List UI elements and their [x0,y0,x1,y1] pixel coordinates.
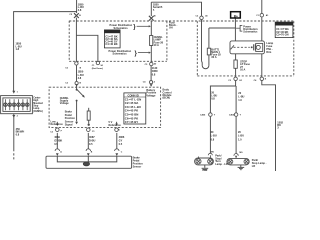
svg-text:CONN ID: CONN ID [106,30,117,34]
svg-text:4087: 4087 [89,135,95,139]
svg-text:L-BU: L-BU [238,94,244,98]
svg-text:4069: 4069 [54,135,60,139]
svg-text:GY/BK: GY/BK [54,138,62,142]
svg-text:Dim: Dim [266,50,272,54]
svg-text:1.8: 1.8 [16,47,20,51]
svg-text:L-BU: L-BU [238,134,244,138]
svg-text:UH: UH [169,26,173,30]
svg-text:0.8: 0.8 [211,137,215,141]
svg-text:0.5: 0.5 [89,142,93,146]
svg-text:C405: C405 [229,114,235,117]
svg-text:10 A: 10 A [240,68,245,72]
svg-text:0.5: 0.5 [119,142,123,146]
svg-text:CONN ID: CONN ID [278,22,289,26]
svg-text:Sensor: Sensor [133,164,142,168]
svg-text:C3=70 GN: C3=70 GN [276,33,288,37]
svg-text:Schematics: Schematics [114,26,129,30]
svg-text:C406: C406 [200,114,206,117]
svg-text:(BCM): (BCM) [163,96,171,100]
svg-text:Serial B: Serial B [153,5,163,9]
svg-text:4.8: 4.8 [78,76,82,80]
svg-text:D-BU: D-BU [89,138,96,142]
svg-text:0.5: 0.5 [54,142,58,146]
svg-text:C4=40 BK: C4=40 BK [105,42,117,46]
svg-text:1.0: 1.0 [238,137,242,141]
svg-text:(CHMSL): (CHMSL) [33,111,43,113]
svg-text:Schematics: Schematics [113,52,128,56]
svg-text:Reference: Reference [51,122,64,126]
svg-text:4.8: 4.8 [78,8,82,12]
svg-text:1.0: 1.0 [238,98,242,102]
svg-text:10 A: 10 A [154,43,159,47]
svg-text:Reference: Reference [109,123,122,127]
svg-text:High: High [33,100,39,102]
svg-text:30 A: 30 A [211,55,216,59]
svg-text:Voltage: Voltage [60,101,70,105]
svg-text:0.8: 0.8 [152,72,156,76]
svg-text:Schematics: Schematics [243,29,258,33]
svg-text:Mounted: Mounted [33,102,43,105]
svg-text:0.8: 0.8 [16,132,20,136]
svg-text:LR: LR [252,164,256,168]
svg-text:Stop: Stop [33,105,39,108]
svg-text:(Hot Dome): (Hot Dome) [92,67,104,70]
svg-text:Lamp: Lamp [33,108,40,110]
svg-text:C7=45 BY: C7=45 BY [125,120,138,124]
svg-text:Lamp - LR: Lamp - LR [215,162,228,166]
svg-text:4086: 4086 [119,135,125,139]
svg-text:GY: GY [119,138,123,142]
svg-text:0.8: 0.8 [211,97,215,101]
svg-text:Center: Center [33,96,40,99]
svg-text:Signal: Signal [65,123,73,127]
svg-text:L-BU: L-BU [211,134,217,138]
svg-text:B+: B+ [234,14,238,18]
svg-text:Voltage: Voltage [146,93,156,97]
